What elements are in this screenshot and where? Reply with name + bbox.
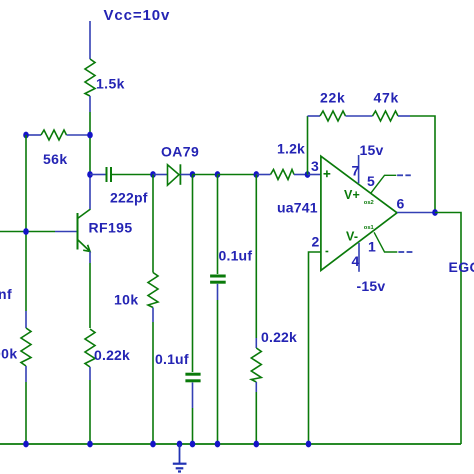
resistor R 0.22k output side [251, 348, 261, 382]
svg-text:ua741: ua741 [277, 200, 318, 216]
pin2 wire stub [309, 252, 321, 444]
wire stub [25, 311, 27, 328]
svg-text:EGG: EGG [449, 259, 474, 275]
svg-text:0.22k: 0.22k [261, 329, 297, 345]
wire [25, 382, 27, 444]
svg-text:6: 6 [397, 196, 405, 212]
svg-text:0.1uf: 0.1uf [219, 248, 253, 264]
svg-text:1: 1 [368, 239, 376, 255]
transistor collector diagonal [78, 209, 91, 219]
svg-text:222pf: 222pf [110, 190, 148, 206]
branch C1 0.1uf: wire [192, 175, 194, 373]
op-amp plus sign [324, 170, 331, 177]
ground symbol bars [173, 464, 187, 472]
svg-text:0.22k: 0.22k [94, 347, 130, 363]
wire stub [255, 338, 257, 348]
node [253, 171, 259, 178]
svg-text:47k: 47k [374, 90, 399, 106]
svg-text:3: 3 [311, 158, 319, 174]
resistor R 1.2k [271, 170, 295, 180]
pin4 wire [358, 243, 360, 272]
wire output right [435, 213, 461, 445]
feedback: wire up [307, 116, 309, 175]
node pin3 [305, 171, 311, 178]
diode D OA79 [168, 165, 180, 185]
wire [152, 322, 154, 444]
branch 10k: wire [152, 175, 154, 273]
output node [432, 209, 438, 216]
wire [308, 115, 321, 117]
bus node ground [177, 441, 183, 448]
svg-text:os2: os2 [364, 200, 374, 206]
wire [152, 308, 154, 323]
node [23, 132, 29, 139]
svg-text:V-: V- [346, 230, 358, 244]
transistor emitter arrow [83, 245, 90, 252]
wire [218, 174, 257, 176]
svg-text:15v: 15v [360, 142, 384, 158]
diode cathode bar [179, 164, 181, 185]
node base junction [23, 228, 29, 235]
wire [192, 408, 194, 444]
ground bus [0, 443, 461, 445]
svg-text:10k: 10k [114, 292, 139, 308]
svg-text:5: 5 [367, 173, 375, 189]
output wire [397, 212, 435, 214]
svg-text:00k: 00k [0, 346, 18, 362]
node [87, 132, 93, 139]
op-amp U1 ua741 triangle [321, 156, 397, 270]
svg-text:56k: 56k [43, 151, 68, 167]
svg-text:22k: 22k [320, 90, 345, 106]
node main line left [87, 171, 93, 178]
wire to cap [90, 174, 106, 176]
svg-text:OA79: OA79 [161, 144, 199, 160]
wire emitter [89, 252, 91, 264]
wire stub [25, 366, 27, 382]
svg-text:7: 7 [352, 163, 360, 179]
svg-text:0.1uf: 0.1uf [155, 351, 189, 367]
resistor R 100k [21, 328, 31, 366]
wire [89, 112, 91, 135]
pin1 no-connect dashes [398, 251, 412, 253]
svg-text:nf: nf [0, 286, 12, 302]
svg-text:-15v: -15v [357, 278, 386, 294]
bus node [87, 441, 93, 448]
bus node [190, 441, 196, 448]
bus node [306, 441, 312, 448]
bus node [23, 441, 29, 448]
transistor emitter diagonal [78, 240, 91, 252]
wire 56k left stub [26, 134, 41, 136]
wire cathode stub [180, 174, 192, 176]
wire [217, 284, 219, 300]
resistor R 56k [41, 130, 67, 140]
wire base net [0, 231, 55, 233]
wire [192, 383, 194, 409]
svg-text:Vcc=10v: Vcc=10v [104, 7, 171, 24]
wire [255, 382, 257, 392]
wire anode stub [153, 174, 168, 176]
wire 1.2k left stub [256, 174, 270, 176]
wire collector rail upper [89, 96, 91, 112]
branch C2 0.1uf: wire [217, 175, 219, 275]
node [215, 171, 221, 178]
wire [217, 300, 219, 444]
wire [89, 135, 91, 175]
svg-text:4: 4 [352, 253, 360, 269]
pin5 no-connect dashes [397, 174, 411, 176]
wire pin3 [308, 174, 321, 176]
svg-text:1.5k: 1.5k [96, 76, 125, 92]
svg-text:os1: os1 [364, 225, 375, 231]
node [190, 171, 196, 178]
svg-text:2: 2 [312, 234, 320, 250]
wire feedback top [410, 116, 435, 213]
bus node [253, 441, 259, 448]
wire [255, 392, 257, 444]
transistor Q1 RF195 base bar [77, 213, 79, 250]
svg-text:1.2k: 1.2k [277, 141, 305, 157]
bus node [150, 441, 156, 448]
node [150, 171, 156, 178]
svg-text:RF195: RF195 [89, 220, 133, 236]
wire [112, 174, 153, 176]
capacitor C 0.1uf plates [185, 373, 200, 376]
branch 0.22k right: wire [255, 175, 257, 339]
ground stem [179, 444, 181, 463]
wire collector [89, 175, 91, 210]
wire Vcc stub [89, 21, 91, 59]
resistor R 47k [373, 111, 399, 121]
wire 56k right stub [67, 134, 91, 136]
resistor R 10k [148, 273, 158, 308]
resistor R 0.22k emitter [85, 329, 95, 367]
op-amp minus sign [326, 251, 329, 253]
resistor R 22k [320, 111, 346, 121]
wire base stub [55, 231, 78, 233]
pin7 wire [358, 155, 360, 183]
wire 1.2k right stub [294, 174, 308, 176]
wire [193, 174, 218, 176]
wire between [346, 115, 373, 117]
wire [398, 115, 410, 117]
wire [89, 380, 91, 444]
wire [89, 263, 91, 328]
pin1 line [374, 232, 397, 252]
wire [89, 367, 91, 380]
resistor R 1.5k [85, 59, 95, 96]
capacitor C 0.1uf plates [210, 275, 226, 278]
bus node [215, 441, 221, 448]
capacitor C 222pf [106, 167, 108, 182]
svg-text:V+: V+ [344, 188, 360, 202]
wire left rail [25, 135, 27, 232]
pin5 line [371, 175, 396, 193]
wire left rail lower [25, 232, 27, 312]
